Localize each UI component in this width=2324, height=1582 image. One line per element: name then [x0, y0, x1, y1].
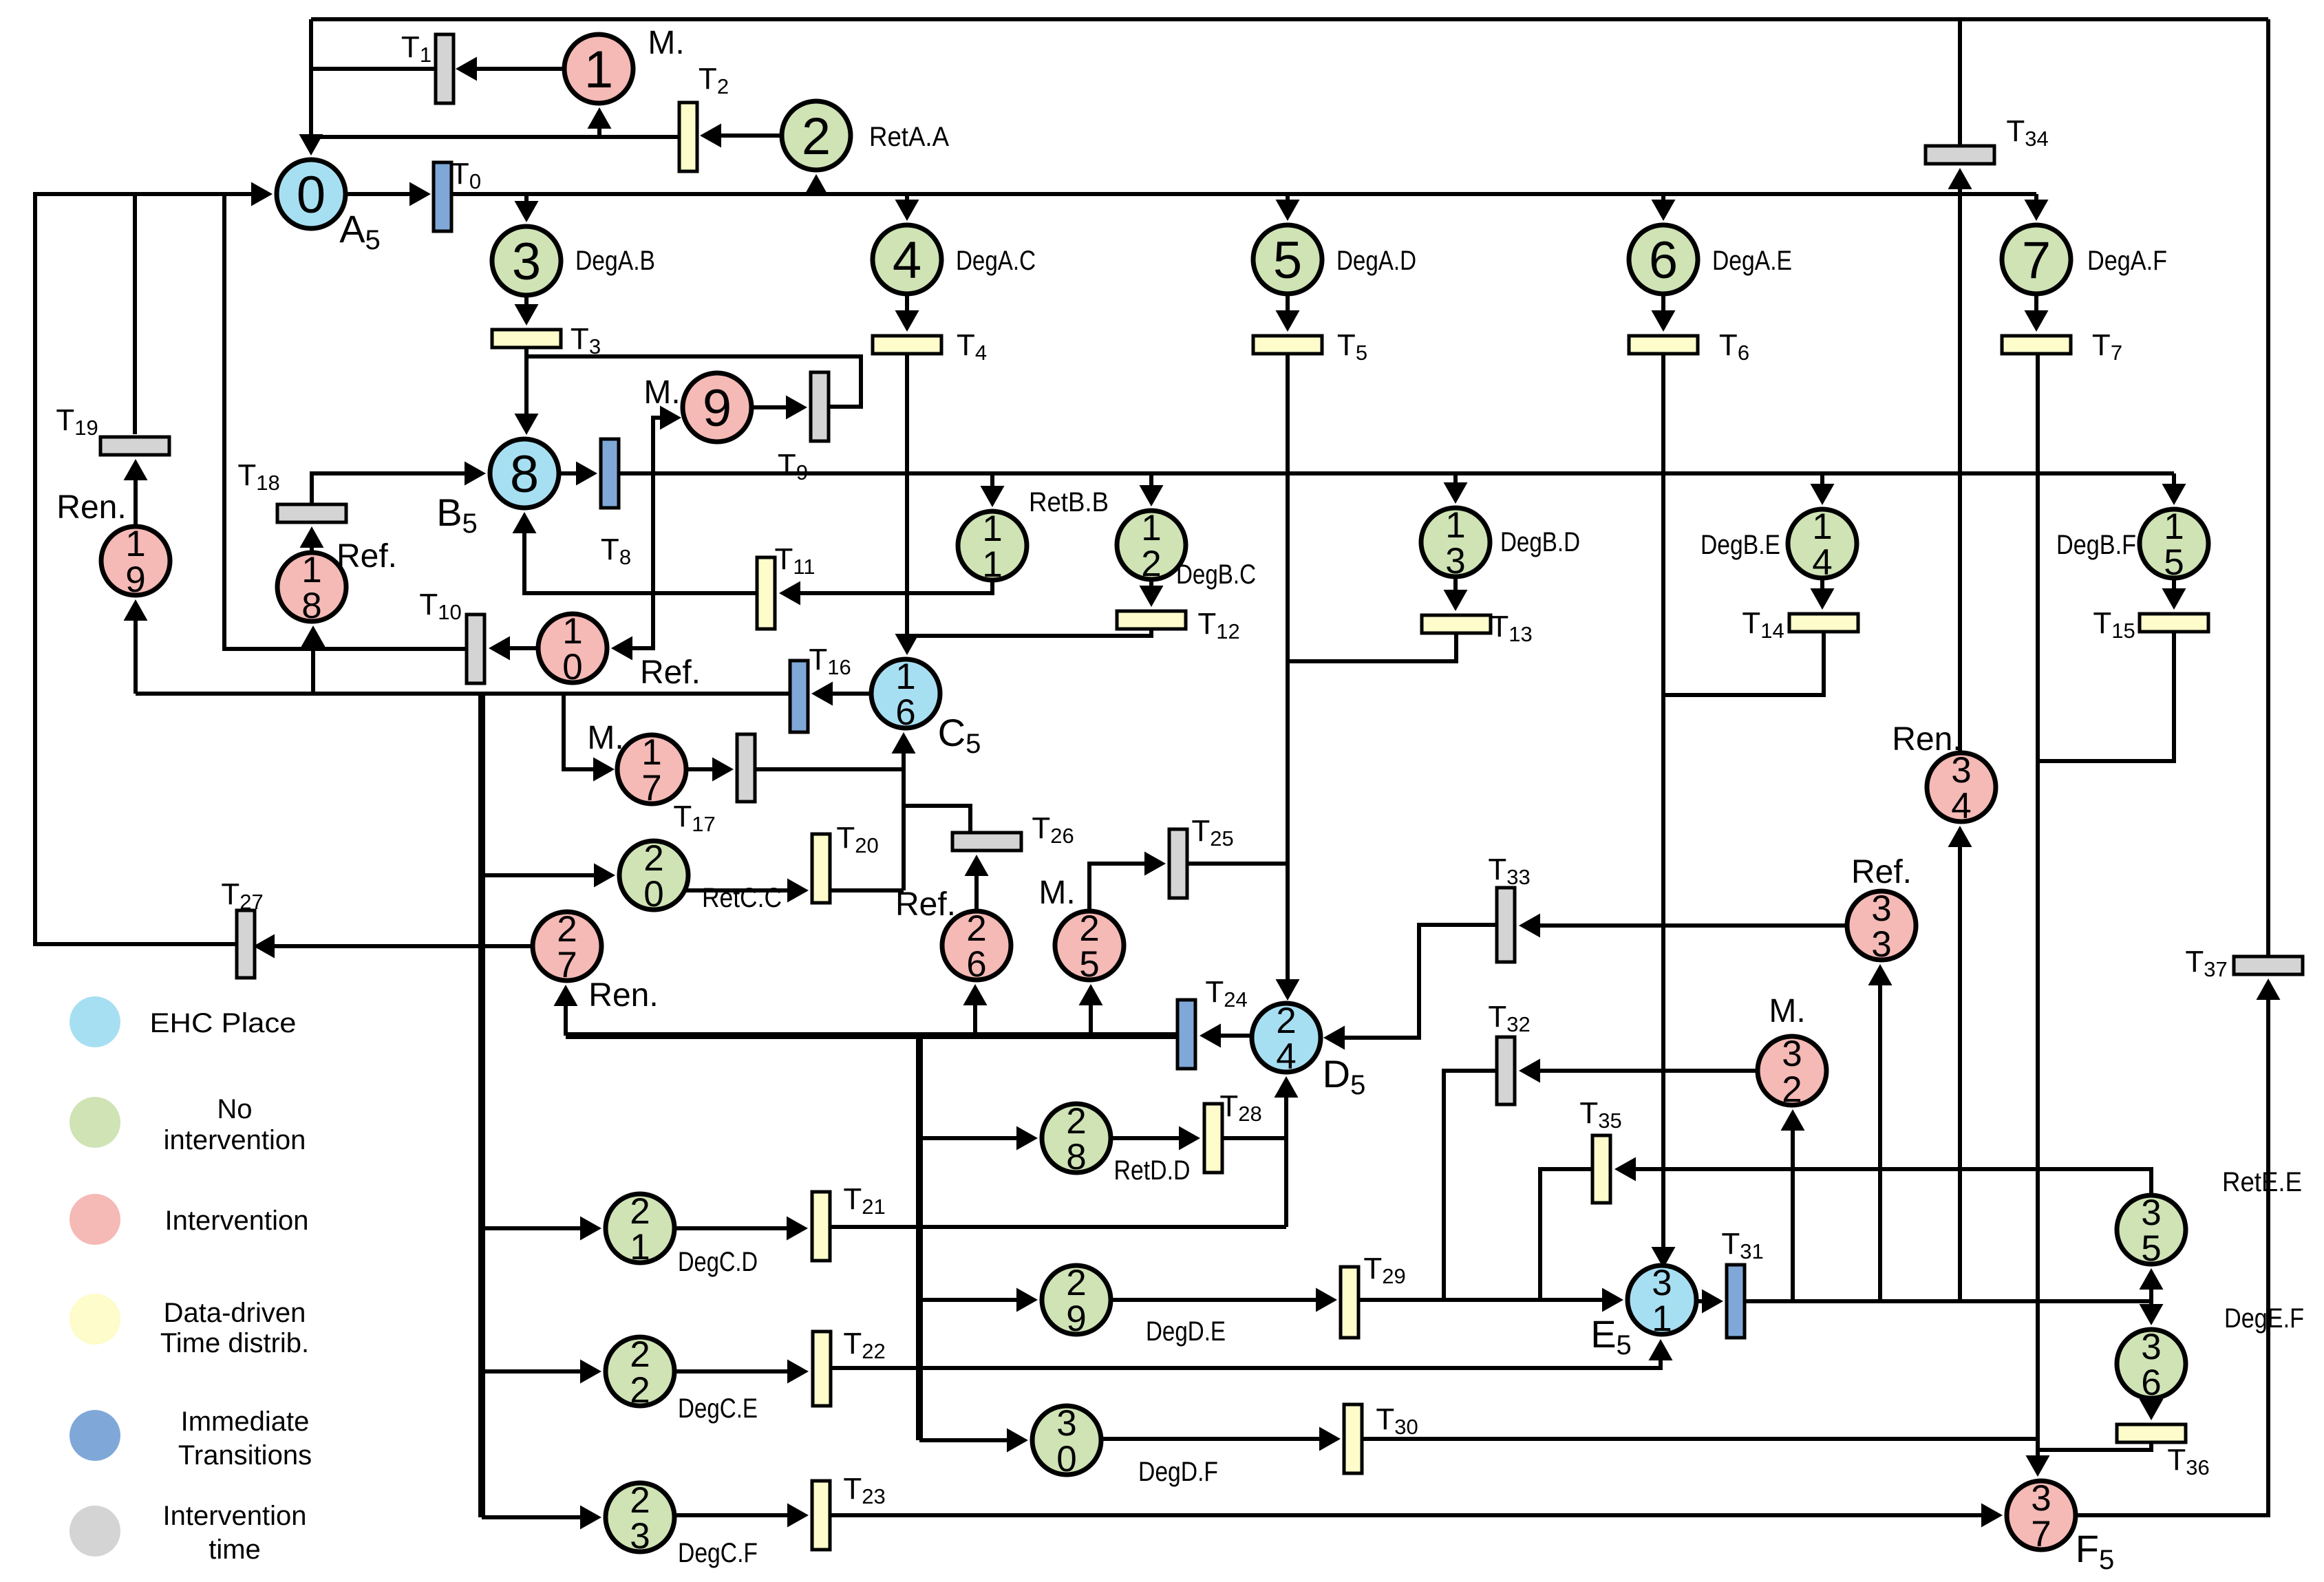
svg-text:Ref.: Ref.	[640, 654, 701, 691]
svg-text:5: 5	[1079, 944, 1099, 985]
svg-text:Ren.: Ren.	[588, 977, 658, 1014]
svg-text:DegA.D: DegA.D	[1336, 246, 1416, 276]
svg-text:2: 2	[557, 909, 577, 950]
svg-text:4: 4	[1812, 542, 1832, 583]
svg-text:0: 0	[643, 874, 663, 915]
svg-text:3: 3	[512, 233, 541, 291]
svg-text:2: 2	[802, 107, 831, 166]
svg-text:2: 2	[630, 1480, 650, 1521]
svg-text:1: 1	[125, 524, 145, 564]
svg-text:6: 6	[2141, 1362, 2161, 1403]
svg-text:1: 1	[301, 550, 321, 590]
svg-text:0: 0	[562, 647, 582, 687]
svg-text:3: 3	[1871, 924, 1891, 965]
svg-text:1: 1	[1652, 1298, 1672, 1339]
svg-text:DegA.B: DegA.B	[575, 246, 655, 276]
svg-text:4: 4	[893, 231, 921, 290]
svg-text:RetE.E: RetE.E	[2222, 1167, 2302, 1197]
svg-text:9: 9	[125, 559, 145, 600]
svg-text:3: 3	[1445, 541, 1465, 581]
svg-text:EHC Place: EHC Place	[150, 1008, 297, 1038]
svg-text:Ren.: Ren.	[56, 489, 126, 526]
svg-text:2: 2	[1066, 1101, 1086, 1142]
svg-text:RetC.C: RetC.C	[702, 883, 782, 913]
svg-text:5: 5	[2141, 1228, 2161, 1269]
svg-text:Transitions: Transitions	[178, 1440, 312, 1471]
svg-text:RetD.D: RetD.D	[1114, 1155, 1191, 1186]
svg-text:7: 7	[557, 945, 577, 985]
svg-text:2: 2	[630, 1370, 650, 1411]
svg-text:RetB.B: RetB.B	[1029, 487, 1109, 517]
svg-text:Data-driven: Data-driven	[164, 1298, 306, 1328]
svg-text:Intervention: Intervention	[162, 1501, 306, 1531]
svg-text:Ren.: Ren.	[1892, 721, 1961, 758]
svg-text:3: 3	[1652, 1263, 1672, 1303]
svg-text:2: 2	[966, 908, 986, 949]
svg-text:4: 4	[1276, 1036, 1296, 1077]
svg-text:2: 2	[630, 1191, 650, 1232]
svg-text:2: 2	[1079, 908, 1099, 949]
svg-text:1: 1	[562, 611, 582, 652]
svg-text:RetA.A: RetA.A	[869, 122, 949, 152]
svg-text:6: 6	[895, 692, 915, 733]
svg-text:6: 6	[1649, 231, 1678, 290]
svg-text:7: 7	[641, 768, 661, 809]
svg-text:DegD.F: DegD.F	[1138, 1457, 1218, 1487]
svg-text:DegB.F: DegB.F	[2056, 530, 2136, 560]
svg-text:Immediate: Immediate	[181, 1407, 310, 1437]
svg-text:3: 3	[1056, 1403, 1076, 1444]
svg-text:intervention: intervention	[164, 1125, 306, 1155]
svg-text:M.: M.	[648, 25, 684, 61]
svg-text:3: 3	[2141, 1327, 2161, 1367]
svg-text:time: time	[209, 1535, 261, 1565]
svg-text:DegA.C: DegA.C	[956, 246, 1036, 276]
svg-text:DegB.C: DegB.C	[1176, 559, 1256, 590]
svg-text:7: 7	[2031, 1514, 2051, 1554]
svg-text:2: 2	[1066, 1263, 1086, 1303]
svg-text:1: 1	[630, 1227, 650, 1268]
svg-text:3: 3	[1871, 888, 1891, 929]
svg-text:4: 4	[1951, 786, 1971, 826]
svg-text:2: 2	[1141, 544, 1161, 584]
svg-text:9: 9	[703, 379, 732, 438]
svg-text:0: 0	[297, 166, 326, 224]
svg-text:3: 3	[2031, 1478, 2051, 1519]
svg-text:1: 1	[641, 732, 661, 773]
svg-text:Ref.: Ref.	[337, 538, 397, 575]
svg-text:3: 3	[1782, 1034, 1802, 1074]
svg-text:1: 1	[1812, 506, 1832, 547]
svg-text:DegC.F: DegC.F	[678, 1538, 758, 1568]
svg-text:DegC.D: DegC.D	[678, 1247, 758, 1277]
svg-text:5: 5	[2164, 542, 2184, 583]
svg-text:M.: M.	[587, 720, 623, 756]
svg-text:No: No	[217, 1094, 252, 1124]
svg-text:DegA.F: DegA.F	[2087, 246, 2167, 276]
svg-text:7: 7	[2022, 231, 2051, 290]
svg-text:9: 9	[1066, 1298, 1086, 1339]
svg-text:DegB.D: DegB.D	[1500, 527, 1580, 557]
svg-text:2: 2	[1782, 1069, 1802, 1110]
svg-text:1: 1	[2164, 506, 2184, 547]
svg-text:Ref.: Ref.	[895, 886, 956, 923]
svg-text:1: 1	[982, 544, 1002, 585]
svg-text:2: 2	[643, 838, 663, 879]
svg-text:Ref.: Ref.	[1851, 854, 1912, 890]
svg-text:DegE.F: DegE.F	[2224, 1303, 2304, 1334]
svg-text:M.: M.	[1038, 875, 1075, 911]
svg-text:M.: M.	[1769, 993, 1805, 1029]
svg-text:8: 8	[510, 445, 539, 504]
svg-text:M.: M.	[643, 374, 680, 411]
svg-text:1: 1	[1141, 508, 1161, 548]
svg-text:0: 0	[1056, 1439, 1076, 1479]
svg-text:8: 8	[1066, 1137, 1086, 1177]
svg-text:2: 2	[630, 1334, 650, 1375]
svg-text:Intervention: Intervention	[164, 1206, 308, 1236]
svg-text:3: 3	[630, 1516, 650, 1557]
svg-text:1: 1	[982, 509, 1002, 549]
svg-text:Time distrib.: Time distrib.	[160, 1328, 309, 1358]
svg-text:6: 6	[966, 944, 986, 985]
svg-text:DegB.E: DegB.E	[1701, 530, 1780, 560]
svg-text:DegA.E: DegA.E	[1712, 246, 1792, 276]
svg-text:5: 5	[1273, 231, 1302, 290]
svg-text:DegD.E: DegD.E	[1146, 1316, 1226, 1347]
svg-text:8: 8	[301, 586, 321, 626]
svg-text:2: 2	[1276, 1001, 1296, 1041]
svg-text:3: 3	[2141, 1193, 2161, 1233]
svg-text:DegC.E: DegC.E	[678, 1393, 758, 1424]
svg-text:1: 1	[584, 41, 613, 99]
svg-text:1: 1	[895, 656, 915, 697]
svg-text:1: 1	[1445, 505, 1465, 546]
